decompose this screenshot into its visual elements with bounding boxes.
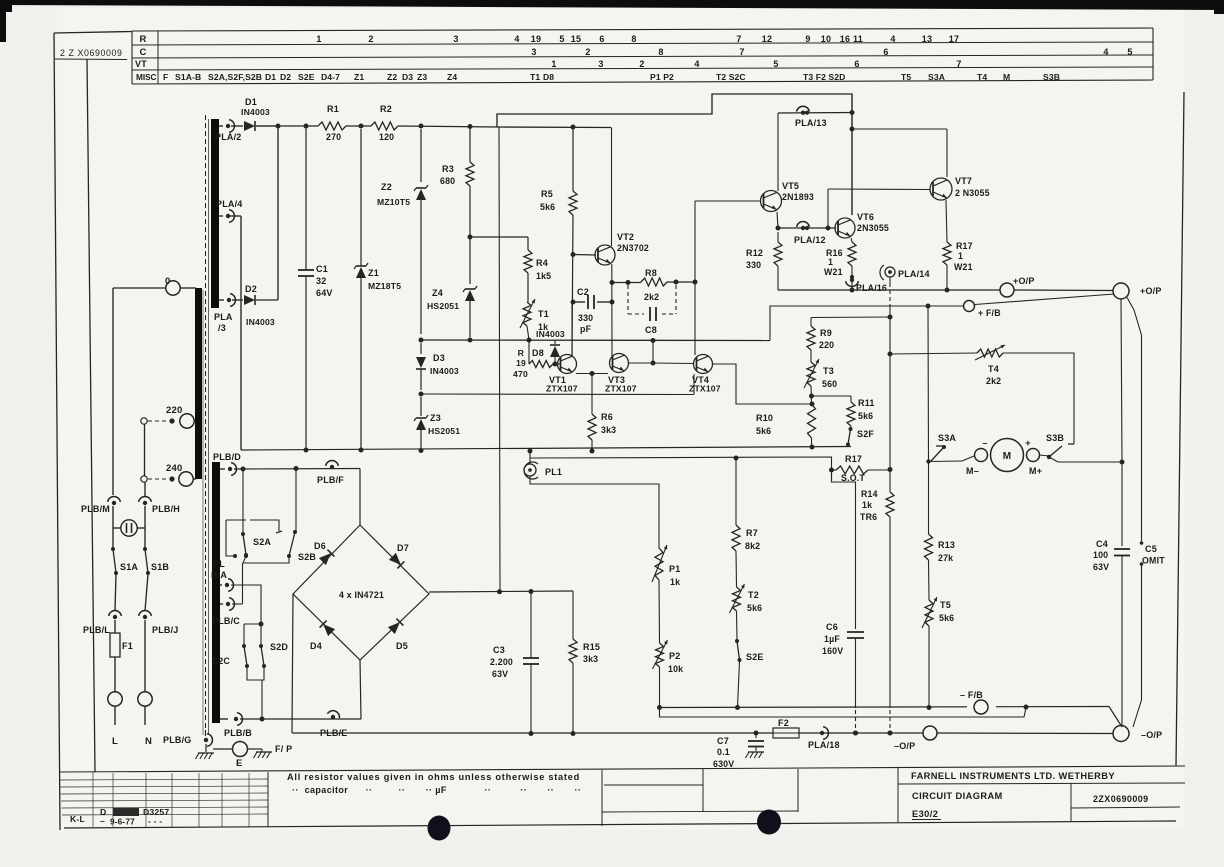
wire D2 up to D1 node — [276, 124, 281, 301]
diode D3 — [416, 343, 459, 390]
svg-text:C2: C2 — [577, 287, 589, 297]
svg-text:PLB/G: PLB/G — [163, 735, 192, 745]
connector PLB/H — [139, 497, 180, 514]
ground symbol at PLB/G — [196, 744, 215, 759]
svg-text:T5: T5 — [901, 72, 911, 82]
wire R13 column from FB bus — [927, 306, 930, 462]
wire P2 down to bottom bus — [659, 667, 661, 708]
svg-text:S2C: S2C — [212, 656, 230, 666]
connector PLB/L — [83, 611, 121, 635]
wire PLB/D to bridge — [234, 466, 360, 472]
svg-text:D2: D2 — [245, 284, 257, 294]
capacitor C8 dashed box — [628, 285, 676, 335]
svg-text:PLB/B: PLB/B — [224, 728, 252, 738]
connector PLA/14 — [880, 265, 930, 280]
notes text — [287, 772, 581, 795]
svg-text:+ F/B: + F/B — [978, 308, 1001, 318]
svg-text:9: 9 — [805, 34, 810, 44]
socket PL1 — [524, 451, 562, 479]
terminal 240 — [166, 463, 196, 486]
svg-text:10: 10 — [821, 34, 831, 44]
capacitor C3 — [490, 592, 539, 735]
wire rail continues to R5 and VT2 — [499, 125, 611, 130]
svg-text:R17: R17 — [845, 454, 862, 464]
svg-text:MZ18T5: MZ18T5 — [368, 281, 401, 291]
connector PLA/13 — [778, 106, 853, 128]
svg-text:Z1: Z1 — [354, 72, 364, 82]
svg-text:220: 220 — [819, 340, 834, 350]
resistor R17 SOT — [829, 454, 890, 483]
resistor R7 — [732, 456, 760, 552]
wire to bridge top — [359, 469, 361, 526]
resistor R13 — [925, 462, 956, 563]
svg-text:Z2: Z2 — [381, 182, 392, 192]
svg-text:1k: 1k — [862, 500, 872, 510]
wire bridge positive to C3 R15 — [429, 589, 573, 594]
wire T1 down to bias bus — [527, 326, 529, 340]
header row R numbers — [316, 34, 959, 44]
connector PLB/A — [211, 559, 233, 591]
svg-text:S3A: S3A — [938, 433, 956, 443]
wire S3B to C4 node — [1049, 457, 1125, 465]
svg-text:1: 1 — [551, 59, 556, 69]
switch S2B — [287, 469, 316, 563]
wire P1 to P2 — [658, 580, 661, 643]
wire to VT7 collector — [852, 129, 947, 177]
connector PLA/2 — [215, 120, 242, 142]
switch S2C S2D loop top — [244, 622, 264, 627]
svg-text:D7: D7 — [397, 543, 409, 553]
svg-text:470: 470 — [513, 369, 528, 379]
svg-text:27k: 27k — [938, 553, 953, 563]
wire PLA/14 down dashed crossing — [888, 277, 893, 492]
wire selector column — [144, 424, 147, 496]
svg-text:·· capacitor ··: ·· capacitor ·· ·· ·· µF ·· ·· ·· ·· — [292, 785, 581, 795]
connector PLA/4 — [216, 199, 243, 222]
connector PLB/E — [320, 711, 348, 738]
svg-text:F2: F2 — [778, 718, 789, 728]
svg-text:560: 560 — [822, 379, 837, 389]
wire R8 right — [667, 280, 698, 285]
wire VT3 to VT4 base — [653, 362, 694, 365]
svg-text:C6: C6 — [826, 622, 838, 632]
wire bottom common bus B — [660, 708, 1027, 718]
svg-text:63V: 63V — [1093, 562, 1109, 572]
transistor VT5 2N1893 — [761, 181, 815, 212]
connector PLB/J — [139, 611, 179, 635]
svg-text:C8: C8 — [645, 325, 657, 335]
transistor VT4 ZTX107 — [689, 355, 721, 394]
wire bottom common bus A — [657, 705, 1109, 711]
diode D6 — [314, 541, 334, 565]
svg-text:S2F: S2F — [857, 429, 874, 439]
svg-text:T1: T1 — [530, 72, 540, 82]
switch S2E — [735, 639, 764, 662]
wire VT1 VT3 emitter join and R6 — [576, 371, 608, 376]
sheet border left outer — [54, 33, 60, 830]
svg-text:PLB/F: PLB/F — [317, 475, 344, 485]
svg-text:6: 6 — [854, 59, 859, 69]
svg-text:Z2: Z2 — [387, 72, 397, 82]
trimmer T5 — [922, 597, 954, 628]
svg-text:270: 270 — [326, 132, 341, 142]
svg-text:D4: D4 — [310, 641, 322, 651]
svg-text:PLA/2: PLA/2 — [215, 132, 242, 142]
svg-text:R: R — [139, 34, 146, 45]
wire to main output terminal — [1014, 289, 1113, 292]
svg-text:5k6: 5k6 — [939, 613, 954, 623]
diode D4 — [310, 621, 335, 651]
svg-text:D5: D5 — [396, 641, 408, 651]
svg-text:S2D: S2D — [270, 642, 288, 652]
svg-text:PLA/12: PLA/12 — [794, 235, 826, 245]
svg-text:Z3: Z3 — [430, 413, 441, 423]
svg-text:PL1: PL1 — [545, 467, 562, 477]
svg-text:ZTX107: ZTX107 — [546, 384, 578, 394]
svg-text:T2: T2 — [748, 590, 759, 600]
svg-text:K-L: K-L — [70, 814, 85, 824]
wire C4 down to negative output — [1121, 556, 1123, 727]
svg-text:R4: R4 — [536, 258, 548, 268]
switch S1B — [143, 547, 169, 575]
svg-text:32: 32 — [316, 276, 326, 286]
svg-text:C1: C1 — [316, 264, 328, 274]
svg-text:S2A,S2F,S2B: S2A,S2F,S2B — [208, 72, 262, 82]
wire long column R2 node down to bridge positive — [499, 127, 500, 590]
wire to R11 — [812, 395, 852, 397]
resistor R12 — [746, 232, 782, 290]
svg-text:5k6: 5k6 — [540, 202, 555, 212]
terminal FB minus — [960, 690, 996, 715]
wire R2 to corner — [398, 124, 499, 130]
terminal 0 — [165, 276, 196, 295]
svg-text:D1: D1 — [265, 72, 276, 82]
resistor R14 TR6 — [860, 489, 894, 522]
svg-text:VT5: VT5 — [782, 181, 799, 191]
svg-text:2.200: 2.200 — [490, 657, 513, 667]
svg-text:MZ10T5: MZ10T5 — [377, 197, 410, 207]
svg-text:2ZX0690009: 2ZX0690009 — [1093, 794, 1149, 804]
wire PLB/H to S1B — [144, 506, 146, 548]
sheet border right — [1176, 92, 1184, 766]
svg-text:M+: M+ — [1029, 466, 1042, 476]
svg-text:S1A: S1A — [120, 562, 138, 572]
svg-text:VT7: VT7 — [955, 176, 972, 186]
wire VT3 collector to bias bus — [628, 341, 656, 366]
svg-text:R7: R7 — [746, 528, 758, 538]
svg-text:R9: R9 — [820, 328, 832, 338]
svg-text:Z4: Z4 — [432, 288, 443, 298]
resistor R17 output — [943, 200, 973, 290]
svg-text:+: + — [1025, 438, 1030, 448]
svg-text:12: 12 — [762, 34, 772, 44]
diode D1 — [231, 97, 278, 131]
svg-text:PLA/16: PLA/16 — [856, 283, 887, 293]
svg-text:3: 3 — [453, 34, 458, 44]
resistor R11 — [847, 396, 875, 426]
wire VT5 collector up to PLA/13 rail — [777, 113, 779, 191]
svg-text:E: E — [236, 758, 243, 769]
svg-text:MISC: MISC — [136, 73, 157, 82]
svg-text:C7: C7 — [717, 736, 729, 746]
connector PLB/B — [220, 713, 252, 738]
svg-text:7: 7 — [956, 59, 961, 69]
wire PL1 bottom to P1 — [530, 476, 659, 548]
switch S2D — [259, 624, 288, 668]
svg-text:4: 4 — [890, 34, 895, 44]
svg-text:1: 1 — [958, 251, 963, 261]
wire 0 to left column — [113, 287, 166, 289]
wire PLA/2 rail to R1 — [256, 124, 318, 129]
svg-text:M–: M– — [966, 466, 979, 476]
svg-text:2N1893: 2N1893 — [782, 192, 814, 202]
svg-text:F/ P: F/ P — [275, 744, 292, 754]
svg-text:4: 4 — [1103, 47, 1108, 57]
wire left column down to PLB/M — [112, 288, 114, 495]
svg-text:9-6-77: 9-6-77 — [110, 818, 135, 827]
connector PLB/C — [212, 598, 240, 626]
resistor R9 — [807, 318, 834, 351]
zener Z2 — [377, 129, 428, 334]
svg-text:B/A: B/A — [211, 570, 227, 580]
svg-text:C: C — [139, 47, 146, 58]
connector PLB/M — [81, 497, 120, 514]
transformer core dashed line — [203, 115, 209, 738]
wire S3A to motor brush — [929, 456, 975, 462]
svg-text:T3: T3 — [823, 366, 834, 376]
svg-text:2 N3055: 2 N3055 — [955, 188, 990, 198]
wire PLB/M to lamp to S1A — [112, 506, 114, 548]
wire PLB/C right — [232, 603, 243, 605]
svg-text:8k2: 8k2 — [745, 541, 760, 551]
svg-text:OMIT: OMIT — [1142, 556, 1165, 566]
svg-text:5k6: 5k6 — [756, 426, 771, 436]
fuse F1 — [110, 620, 133, 692]
svg-text:5k6: 5k6 — [858, 411, 873, 421]
svg-text:PLA/14: PLA/14 — [898, 269, 930, 279]
svg-text:–O/P: –O/P — [1141, 730, 1162, 740]
svg-text:T3 F2 S2D: T3 F2 S2D — [803, 72, 845, 82]
wire T5 down to FB bus — [927, 626, 932, 710]
selector link 240 dashed — [141, 476, 175, 482]
svg-text:PL: PL — [213, 559, 225, 569]
svg-text:330: 330 — [746, 260, 761, 270]
diode D8 — [532, 340, 560, 367]
svg-text:W21: W21 — [824, 267, 843, 277]
zener Z1 — [354, 129, 401, 448]
svg-text:5: 5 — [559, 34, 564, 44]
svg-text:PLA/4: PLA/4 — [216, 199, 243, 209]
wire PLA/18 to OP minus terminal — [853, 731, 893, 736]
connector PLB/F — [317, 461, 344, 485]
switch S2A alternate contact — [226, 520, 282, 533]
svg-text:3: 3 — [598, 59, 603, 69]
wire bus A into negative output terminal — [1109, 707, 1122, 728]
svg-text:8: 8 — [658, 47, 663, 57]
svg-text:M: M — [1003, 451, 1012, 462]
trimmer T1 — [520, 299, 549, 332]
svg-text:IN4003: IN4003 — [430, 366, 459, 376]
svg-text:T4: T4 — [988, 364, 999, 374]
svg-text:3k3: 3k3 — [583, 654, 598, 664]
svg-text:2: 2 — [585, 47, 590, 57]
svg-text:160V: 160V — [822, 646, 843, 656]
wire T2 to S2E — [736, 611, 739, 640]
svg-text:11: 11 — [853, 34, 863, 44]
svg-text:D6: D6 — [314, 541, 326, 551]
svg-text:S1B: S1B — [151, 562, 169, 572]
svg-text:S3B: S3B — [1046, 433, 1064, 443]
svg-text:100: 100 — [1093, 550, 1108, 560]
svg-text:PLB/M: PLB/M — [81, 504, 110, 514]
bottom band frame — [59, 766, 1185, 828]
svg-text:P2: P2 — [669, 651, 680, 661]
svg-text:1: 1 — [316, 34, 321, 44]
svg-text:D1: D1 — [245, 97, 257, 107]
scan edge black strips — [0, 0, 1224, 42]
svg-text:1: 1 — [828, 257, 833, 267]
switch loop bottom — [247, 667, 265, 722]
svg-text:–: – — [982, 438, 987, 448]
svg-text:PLA/13: PLA/13 — [795, 118, 827, 128]
svg-text:R12: R12 — [746, 248, 763, 258]
header reference table — [132, 28, 1153, 84]
switch S2F — [846, 426, 874, 447]
svg-text:64V: 64V — [316, 288, 333, 298]
svg-text:PLB/C: PLB/C — [212, 616, 240, 626]
wire output terminal down to C4 — [1121, 299, 1122, 546]
svg-text:P1: P1 — [669, 564, 680, 574]
svg-text:680: 680 — [440, 176, 455, 186]
diode D7 — [389, 543, 409, 568]
wire zener reference bus y394 — [419, 374, 695, 397]
transformer secondary bottom winding bar — [212, 462, 220, 723]
connector PLA/16 — [846, 266, 887, 293]
wire S1B to PLB/J — [145, 574, 148, 611]
terminal OP main positive — [1113, 283, 1162, 299]
svg-text:5: 5 — [1127, 47, 1132, 57]
svg-text:Z3: Z3 — [417, 72, 427, 82]
svg-text:R3: R3 — [442, 164, 454, 174]
svg-text:3: 3 — [531, 47, 536, 57]
wire R13 to T5 — [928, 560, 931, 600]
zener Z4 — [427, 286, 477, 337]
connector PLA/18 — [808, 727, 840, 750]
transistor VT6 2N3055 — [835, 212, 889, 238]
svg-text:T4: T4 — [977, 72, 987, 82]
potentiometer P1 — [652, 545, 680, 587]
svg-text:7: 7 — [739, 47, 744, 57]
header row C numbers — [531, 47, 1132, 57]
svg-text:C5: C5 — [1145, 544, 1157, 554]
svg-text:1k5: 1k5 — [536, 271, 551, 281]
svg-text:0: 0 — [165, 276, 170, 287]
svg-text:2: 2 — [368, 34, 373, 44]
svg-text:8: 8 — [631, 34, 636, 44]
capacitor C5 omitted — [1127, 298, 1165, 728]
svg-text:E30/2: E30/2 — [912, 809, 938, 819]
terminal E earth — [213, 742, 262, 770]
wire PLA/4 center tap down to 0V bus — [228, 216, 241, 450]
svg-text:R5: R5 — [541, 189, 553, 199]
svg-text:R8: R8 — [645, 268, 657, 278]
switch S1A — [111, 547, 138, 575]
svg-text:IN4003: IN4003 — [536, 329, 565, 339]
svg-text:C4: C4 — [1096, 539, 1108, 549]
wire R1 to R2 — [346, 124, 371, 129]
svg-text:D3: D3 — [402, 72, 413, 82]
svg-text:C3: C3 — [493, 645, 505, 655]
svg-text:ZTX107: ZTX107 — [605, 384, 637, 394]
svg-text:220: 220 — [166, 405, 182, 416]
svg-text:HS2051: HS2051 — [428, 426, 460, 436]
svg-text:S3B: S3B — [1043, 72, 1060, 82]
resistor R15 — [569, 591, 600, 734]
svg-text:R13: R13 — [938, 540, 955, 550]
svg-text:–O/P: –O/P — [894, 741, 915, 751]
svg-text:1µF: 1µF — [824, 634, 840, 644]
capacitor C6 — [822, 470, 864, 736]
wire down to PLB/C node — [242, 563, 244, 604]
punch hole right — [757, 810, 781, 835]
wire VT1 collector up to R5 node — [571, 302, 573, 356]
svg-text:L: L — [112, 736, 118, 747]
diode D2 — [232, 284, 278, 327]
wire bridge bottom to PLB/E PLB/B — [360, 660, 361, 719]
svg-text:R2: R2 — [380, 104, 392, 114]
wire collector rail junctions — [850, 110, 855, 132]
svg-text:IN4003: IN4003 — [241, 107, 270, 117]
svg-text:R11: R11 — [858, 398, 875, 408]
svg-text:pF: pF — [580, 324, 592, 334]
sheet border left inner — [87, 59, 95, 772]
svg-text:19: 19 — [531, 34, 541, 44]
svg-text:S2E: S2E — [298, 72, 315, 82]
svg-text:D8: D8 — [532, 348, 544, 358]
capacitor C2 — [571, 287, 615, 334]
punch hole left — [428, 816, 451, 841]
wire PLA/14 node to R9 — [811, 316, 890, 319]
svg-text:- - -: - - - — [148, 816, 162, 826]
connector PLB/G — [163, 730, 212, 746]
svg-text:+O/P: +O/P — [1140, 286, 1162, 296]
potentiometer P2 — [653, 640, 684, 674]
svg-text:5: 5 — [773, 59, 778, 69]
svg-text:Z1: Z1 — [368, 268, 379, 278]
svg-text:R15: R15 — [583, 642, 600, 652]
svg-text:HS2051: HS2051 — [427, 301, 459, 311]
neon lamp — [113, 520, 145, 536]
svg-text:6: 6 — [883, 47, 888, 57]
resistor R2 — [371, 104, 398, 142]
terminal N circle — [138, 692, 152, 747]
svg-text:4 x IN4721: 4 x IN4721 — [339, 590, 384, 600]
svg-text:N: N — [145, 736, 152, 747]
switch S2A left leg — [226, 520, 237, 558]
resistor R3 — [440, 129, 474, 284]
svg-text:PLA/18: PLA/18 — [808, 740, 840, 750]
svg-text:D8: D8 — [543, 72, 554, 82]
wire PLB/J down — [144, 620, 146, 692]
wire feedback bus — [770, 304, 963, 341]
resistor R8 — [641, 268, 667, 302]
svg-text:CIRCUIT DIAGRAM: CIRCUIT DIAGRAM — [912, 791, 1003, 801]
transformer T primary winding bar — [195, 288, 202, 479]
svg-text:–: – — [100, 816, 105, 826]
svg-text:R: R — [518, 348, 525, 358]
wire VT5 base — [695, 200, 760, 202]
svg-text:PLB/D: PLB/D — [213, 452, 241, 462]
